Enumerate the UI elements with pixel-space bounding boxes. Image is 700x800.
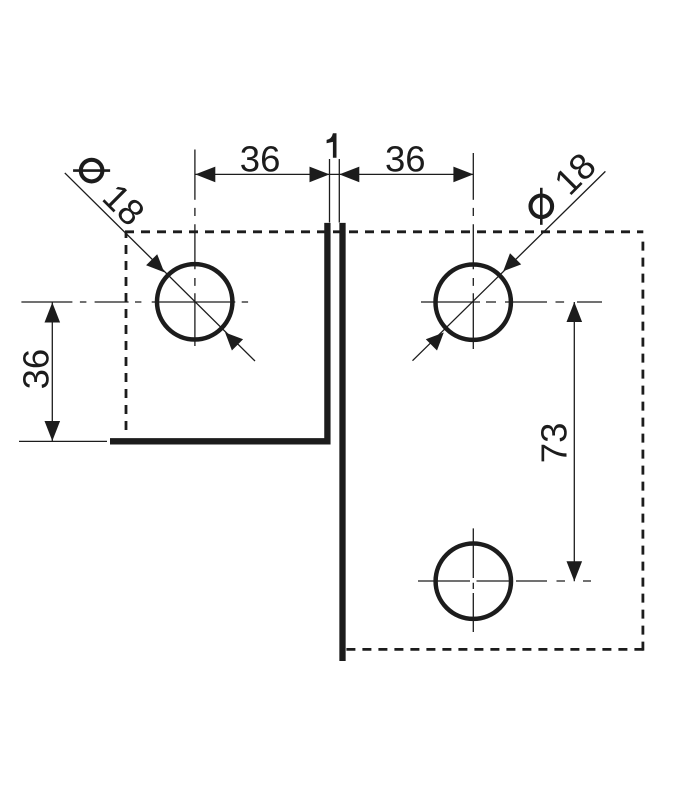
extension line left hole center bbox=[194, 150, 196, 200]
bend outer edge (thick vertical) bbox=[339, 223, 345, 661]
arrow vertical 36 top bbox=[45, 303, 61, 323]
right flange dashed outline bbox=[346, 238, 644, 651]
label Ø18 left bbox=[67, 148, 153, 234]
dimension line vertical 36 bbox=[51, 303, 53, 442]
leader arrow upper-left bbox=[146, 254, 164, 272]
centerline horizontal bottom hole bbox=[418, 580, 591, 582]
centerline vertical left hole bbox=[194, 208, 196, 346]
hole right bottom bbox=[436, 544, 511, 619]
arrow right 36 left bbox=[339, 167, 359, 183]
hole right top (Ø18) bbox=[436, 265, 511, 340]
svg-text:36: 36 bbox=[240, 138, 281, 179]
extension line plate outer face bbox=[338, 159, 340, 223]
centerline horizontal right top hole bbox=[421, 301, 602, 303]
svg-text:73: 73 bbox=[533, 423, 574, 464]
centerline vertical bottom hole bbox=[472, 528, 474, 632]
leader arrow lower-left bbox=[426, 333, 444, 351]
svg-text:36: 36 bbox=[385, 139, 426, 180]
centerline horizontal left hole bbox=[21, 301, 248, 303]
centerline vertical right top hole bbox=[472, 208, 474, 349]
left flange dashed outline bbox=[125, 232, 643, 430]
arrow vertical 36 bottom bbox=[45, 421, 61, 441]
extension line plate inner face bbox=[329, 159, 331, 223]
arrow left 36 left bbox=[195, 167, 215, 183]
extension line right hole center bbox=[472, 153, 474, 200]
dimension line top (36 / 1 / 36) bbox=[195, 173, 473, 175]
leader line left hole bbox=[65, 173, 255, 361]
arrow left 36 right bbox=[310, 167, 330, 183]
label Ø18 right bbox=[518, 145, 604, 231]
extension line bottom edge bbox=[19, 440, 107, 442]
arrow right 36 right bbox=[453, 167, 473, 183]
leader arrow lower-right bbox=[225, 333, 243, 351]
arrow 73 top bbox=[567, 302, 583, 322]
bend inner edge (thick L) bbox=[110, 223, 327, 441]
hole left (Ø18) bbox=[157, 264, 232, 339]
label 1 bbox=[327, 133, 337, 158]
leader line right hole bbox=[413, 171, 606, 360]
svg-text:36: 36 bbox=[16, 349, 57, 390]
arrow 73 bottom bbox=[567, 561, 583, 581]
leader arrow upper-right bbox=[503, 253, 521, 271]
dimension line vertical 73 bbox=[573, 302, 575, 581]
